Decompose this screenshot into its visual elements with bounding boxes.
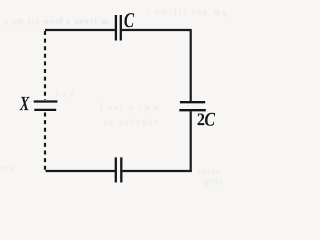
wire left lower dashed (capacitor X to bottom-left corner) [44,113,46,171]
wire left upper dashed (top-left corner to capacitor X) [44,31,46,100]
capacitor 2C plate bottom [179,109,206,111]
label 2C (right capacitor) digit 2 [198,113,205,125]
label X (left capacitor) [20,97,30,110]
bottom capacitor plate left [115,157,117,182]
label C (top capacitor) [124,13,134,27]
faint page bleed-through text (decorative) [4,16,110,26]
capacitor X plate top [34,100,58,102]
wire bottom-left (bottom capacitor to bottom-left corner) [46,170,115,172]
capacitor C plate right [120,15,122,41]
label 2C (right capacitor) letter C [205,113,215,126]
capacitor X plate bottom [34,109,56,111]
wire top-right (capacitor C to top-right corner) [122,29,191,31]
wire right lower (capacitor 2C to bottom-right corner) [190,111,192,172]
capacitor 2C plate top [180,101,205,103]
wire top-left (node: top-left corner to capacitor C) [45,29,115,31]
wire bottom-right (corner to bottom capacitor) [122,170,191,172]
wire right upper (top-right corner to capacitor 2C) [190,29,192,101]
bottom capacitor plate right [120,157,122,182]
capacitor C plate left [115,15,117,41]
